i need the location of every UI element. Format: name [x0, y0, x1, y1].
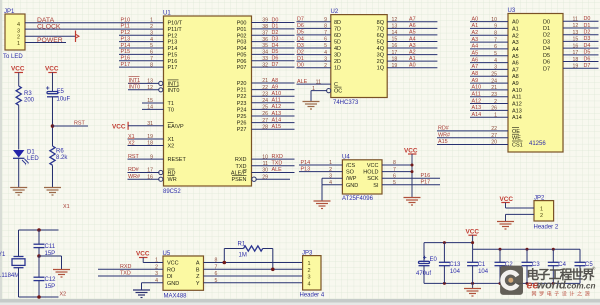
power VCC (above E5)	[45, 66, 59, 92]
svg-text:200: 200	[24, 98, 35, 104]
svg-text:P15: P15	[121, 49, 131, 55]
svg-text:RXD: RXD	[272, 154, 283, 160]
svg-text:16: 16	[147, 174, 153, 180]
U2 pins 8Q-1Q with A7-A0 nets	[377, 17, 438, 72]
svg-text:ALE: ALE	[297, 79, 308, 85]
junction (RST node)	[51, 124, 55, 128]
svg-text:D2: D2	[297, 49, 304, 55]
svg-text:9: 9	[494, 24, 497, 30]
svg-text:18: 18	[147, 141, 153, 147]
latch U2 74HC373	[331, 9, 388, 106]
svg-text:VCC: VCC	[404, 147, 418, 154]
svg-text:D4: D4	[543, 46, 550, 52]
svg-text:1D: 1D	[334, 66, 341, 72]
svg-text:13: 13	[147, 79, 153, 85]
svg-text:P12: P12	[168, 33, 178, 39]
U1 pins P00-P07 with D0-D7 nets	[237, 17, 295, 71]
svg-text:P05: P05	[237, 52, 247, 58]
capacitor E5 10uF (electrolytic)	[46, 86, 71, 102]
svg-text:37: 37	[262, 31, 268, 37]
svg-text:A11: A11	[472, 92, 481, 98]
svg-text:A6: A6	[472, 57, 479, 63]
U4 right pins VCC HOLD SCK SI	[363, 160, 440, 189]
power VCC (U5 pin1)	[136, 251, 163, 263]
svg-text:P11: P11	[121, 24, 130, 30]
svg-text:17: 17	[573, 50, 579, 56]
U3 pins A0-A14	[470, 16, 522, 121]
svg-text:A2: A2	[409, 49, 416, 55]
svg-text:25: 25	[491, 71, 497, 77]
resistor R3	[16, 86, 35, 105]
U1 pins P10-P17 (left, pin names and numbers)	[150, 18, 183, 71]
svg-text:RST: RST	[128, 154, 139, 160]
svg-text:D5: D5	[543, 53, 550, 59]
svg-text:A1: A1	[512, 26, 519, 32]
svg-text:2: 2	[17, 35, 20, 41]
capacitor C1	[467, 249, 489, 283]
svg-text:19: 19	[573, 63, 579, 69]
svg-text:5Q: 5Q	[377, 40, 385, 46]
svg-text:26: 26	[262, 111, 268, 117]
svg-text:17: 17	[147, 168, 153, 174]
svg-text:A6: A6	[409, 23, 416, 29]
svg-text:A14: A14	[472, 112, 482, 118]
svg-text:C12: C12	[45, 277, 57, 283]
U2 pin C (ALE)	[297, 79, 339, 88]
svg-text:74HC373: 74HC373	[333, 100, 359, 106]
connector JP1	[3, 9, 25, 60]
svg-text:104: 104	[478, 269, 489, 275]
U4 left pins /CS SO /WP GND	[299, 160, 358, 201]
svg-text:22.1184M: 22.1184M	[0, 273, 19, 279]
svg-text:RXD: RXD	[235, 157, 247, 163]
svg-text:A7: A7	[472, 64, 479, 70]
U1 pins RD/WR with bubbles	[128, 167, 177, 183]
svg-text:13: 13	[392, 24, 398, 30]
svg-text:23: 23	[491, 92, 497, 98]
resistor R1 1M (bridge A-B)	[224, 242, 272, 270]
svg-text:8D: 8D	[334, 20, 341, 26]
power VCC (cap bank)	[466, 229, 480, 243]
U1 pin EA/VP	[147, 121, 184, 130]
svg-text:16: 16	[392, 43, 398, 49]
svg-text:8: 8	[324, 24, 327, 30]
svg-text:3: 3	[308, 275, 311, 281]
svg-text:7D: 7D	[334, 26, 341, 32]
svg-text:D7: D7	[297, 17, 304, 23]
svg-text:2: 2	[324, 63, 327, 69]
svg-text:D3: D3	[297, 43, 304, 49]
svg-text:DI: DI	[167, 274, 173, 280]
svg-text:A11: A11	[272, 98, 281, 104]
svg-text:A12: A12	[272, 104, 282, 110]
svg-text:TXD: TXD	[120, 271, 131, 277]
svg-text:30: 30	[262, 168, 268, 174]
capacitor C13	[439, 243, 461, 284]
svg-text:A9: A9	[472, 78, 479, 84]
svg-text:VCC: VCC	[500, 196, 514, 203]
svg-text:MAX488: MAX488	[164, 294, 188, 300]
svg-text:A0: A0	[409, 63, 416, 69]
junction (X2 rail)	[37, 295, 41, 299]
U1 pin RESET	[128, 154, 187, 163]
U1 pins T1/T0	[142, 98, 174, 113]
node labels X1/X2 at U1	[128, 134, 135, 147]
svg-text:A10: A10	[472, 85, 482, 91]
svg-text:22: 22	[491, 126, 497, 132]
svg-text:/WP: /WP	[346, 176, 357, 182]
svg-text:6D: 6D	[334, 33, 341, 39]
ground (under R6)	[44, 188, 61, 196]
svg-text:AT25F4096: AT25F4096	[342, 196, 374, 202]
svg-text:6: 6	[494, 44, 497, 50]
junction dots cap bank	[443, 241, 555, 285]
svg-text:A2: A2	[512, 33, 519, 39]
svg-text:P10/T: P10/T	[168, 21, 183, 27]
capacitor E0 470uf (electrolytic)	[416, 256, 438, 284]
svg-text:89C52: 89C52	[163, 189, 181, 195]
junction U4 pin7	[411, 170, 414, 173]
svg-text:35: 35	[262, 43, 268, 49]
svg-text:14: 14	[392, 30, 398, 36]
svg-text:P02: P02	[237, 33, 247, 39]
svg-text:3D: 3D	[334, 53, 341, 59]
svg-text:C11: C11	[45, 244, 56, 250]
svg-text:A: A	[196, 261, 200, 267]
capacitor C2	[495, 249, 514, 283]
U1 pins P20-P27 with A8-A15 nets	[237, 78, 295, 133]
svg-text:CLOCK: CLOCK	[37, 24, 61, 31]
svg-text:D0: D0	[297, 63, 304, 69]
svg-text:A7: A7	[409, 17, 416, 23]
svg-text:VCC: VCC	[167, 261, 179, 267]
svg-text:A9: A9	[512, 81, 519, 87]
svg-text:8Q: 8Q	[377, 20, 385, 26]
U1 pins INT1/INT0 with bubbles	[128, 79, 179, 94]
svg-text:9: 9	[324, 17, 327, 23]
svg-text:D1: D1	[297, 56, 304, 62]
svg-text:A0: A0	[512, 20, 519, 26]
svg-text:29: 29	[262, 174, 268, 180]
svg-text:1: 1	[17, 41, 20, 47]
svg-text:A14: A14	[272, 117, 282, 123]
svg-text:2Q: 2Q	[377, 59, 385, 65]
svg-text:Y: Y	[196, 281, 200, 287]
U1 pins X1/X2	[128, 134, 175, 149]
svg-text:C13: C13	[449, 262, 461, 268]
svg-text:A12: A12	[512, 102, 522, 108]
svg-text:D4: D4	[297, 36, 304, 42]
svg-text:4D: 4D	[334, 46, 341, 52]
crystal Y1 22.1184M	[0, 252, 25, 279]
svg-text:4: 4	[324, 50, 327, 56]
svg-text:27: 27	[491, 133, 497, 139]
resistor R6	[50, 146, 68, 165]
svg-text:/CS: /CS	[346, 163, 356, 169]
ground (U4 GND//WP)	[314, 201, 331, 209]
svg-text:P17: P17	[168, 65, 178, 71]
svg-text:RESET: RESET	[168, 157, 187, 163]
wire JP1.1	[25, 42, 66, 44]
wire crystal top rail	[19, 230, 59, 257]
svg-text:17: 17	[392, 50, 398, 56]
U3 pins D0-D7 (right)	[543, 16, 599, 72]
svg-text:A0: A0	[472, 16, 479, 22]
wire RST stub	[53, 125, 89, 127]
svg-text:GND: GND	[346, 183, 358, 189]
wire DATA (JP1.4 to U1 P10)	[25, 22, 164, 24]
svg-text:网罗电子设计之源: 网罗电子设计之源	[532, 290, 593, 297]
memory U3 41256	[508, 8, 564, 152]
svg-text:OC: OC	[334, 89, 342, 95]
svg-text:P20: P20	[237, 81, 247, 87]
svg-text:A13: A13	[472, 105, 482, 111]
power port bar (POWER net)	[76, 31, 80, 43]
svg-text:P25: P25	[237, 114, 247, 120]
svg-text:P12: P12	[121, 30, 131, 36]
svg-text:3: 3	[494, 65, 497, 71]
svg-text:28: 28	[262, 124, 268, 130]
wire E5 to RST junction	[52, 97, 54, 146]
svg-text:P15: P15	[168, 52, 178, 58]
svg-text:1: 1	[150, 18, 153, 24]
svg-text:P10: P10	[121, 17, 131, 23]
svg-text:WR: WR	[168, 177, 177, 183]
svg-text:D6: D6	[584, 56, 591, 62]
wires P12..P17 stubs	[119, 35, 164, 67]
junction R1/B	[271, 268, 275, 272]
wire crystal bottom to rail	[19, 268, 59, 297]
svg-text:RST: RST	[74, 121, 85, 127]
svg-text:33: 33	[262, 56, 268, 62]
capacitor C11 15P	[34, 230, 56, 257]
svg-text:X2: X2	[128, 140, 135, 146]
svg-text:D7: D7	[543, 66, 550, 72]
capacitor C12 15P	[34, 256, 57, 297]
svg-text:8: 8	[494, 30, 497, 36]
svg-text:12: 12	[573, 23, 579, 29]
svg-text:A12: A12	[472, 98, 482, 104]
svg-text:20: 20	[491, 140, 497, 146]
svg-text:19: 19	[392, 63, 398, 69]
svg-text:Header 2: Header 2	[534, 225, 559, 231]
wire EA/VP	[128, 125, 163, 127]
svg-text:C1: C1	[478, 262, 486, 268]
svg-text:22: 22	[262, 85, 268, 91]
svg-text:11: 11	[263, 161, 268, 167]
svg-text:P14: P14	[301, 160, 311, 166]
svg-text:POWER: POWER	[37, 37, 63, 44]
junction R1/A	[223, 261, 227, 265]
svg-text:X1: X1	[63, 204, 70, 210]
svg-text:2D: 2D	[334, 59, 341, 65]
svg-text:4: 4	[308, 281, 311, 287]
svg-text:RO: RO	[167, 267, 176, 273]
svg-text:P13: P13	[301, 166, 311, 172]
wire RXD to U5.RO	[98, 268, 163, 270]
svg-text:To LED: To LED	[3, 54, 23, 60]
svg-text:5: 5	[324, 43, 327, 49]
svg-text:2: 2	[150, 24, 153, 30]
svg-text:41256: 41256	[529, 141, 546, 147]
svg-text:9: 9	[150, 154, 153, 160]
svg-text:A9: A9	[272, 84, 279, 90]
svg-text:15: 15	[147, 98, 153, 104]
wire CLOCK (JP1.3 to U1 P11)	[25, 28, 164, 30]
wire JP1.2 to power bar	[25, 35, 76, 37]
svg-text:D4: D4	[584, 43, 591, 49]
svg-text:SO: SO	[346, 170, 355, 176]
svg-text:A4: A4	[512, 47, 519, 53]
svg-text:5: 5	[494, 51, 497, 57]
svg-text:A1: A1	[472, 23, 479, 29]
svg-text:A8: A8	[472, 71, 479, 77]
svg-text:B: B	[196, 267, 200, 273]
svg-text:10uF: 10uF	[57, 97, 71, 103]
svg-text:2: 2	[494, 99, 497, 105]
svg-text:18: 18	[392, 56, 398, 62]
svg-text:D1: D1	[584, 23, 591, 29]
svg-text:P14: P14	[121, 43, 131, 49]
svg-text:4: 4	[494, 58, 497, 64]
svg-text:VCC: VCC	[466, 229, 480, 236]
ground (U4 right)	[404, 198, 421, 206]
svg-text:2: 2	[540, 213, 543, 219]
svg-text:12: 12	[392, 17, 398, 23]
svg-text:15: 15	[573, 37, 579, 43]
wire bottom bus	[424, 282, 580, 284]
wire U5.B to JP3.2	[204, 268, 303, 270]
svg-text:A6: A6	[512, 61, 519, 67]
watermark eeworld logo	[500, 266, 523, 295]
capacitor C4	[548, 249, 567, 283]
svg-text:LED: LED	[27, 156, 39, 162]
svg-text:D1: D1	[543, 26, 550, 32]
svg-text:A2: A2	[472, 30, 479, 36]
svg-text:P03: P03	[237, 40, 247, 46]
svg-text:VCC: VCC	[11, 66, 25, 73]
svg-text:A1: A1	[409, 56, 416, 62]
svg-text:4Q: 4Q	[377, 46, 385, 52]
wire U5.GND to ground	[142, 283, 164, 290]
node labels P10..P17	[121, 17, 131, 68]
wire U5.A to JP3.1	[204, 262, 303, 264]
svg-text:VCC: VCC	[367, 163, 379, 169]
svg-text:7: 7	[324, 30, 327, 36]
svg-text:D2: D2	[272, 30, 279, 36]
svg-text:36: 36	[262, 37, 268, 43]
U5 pins A B Z Y	[196, 258, 218, 287]
svg-text:RD#: RD#	[128, 167, 139, 173]
svg-text:A4: A4	[472, 44, 479, 50]
ground (crystal)	[53, 270, 70, 278]
junction (C11/C12/gnd)	[37, 254, 41, 258]
svg-text:10: 10	[262, 154, 268, 160]
svg-text:EA\VP: EA\VP	[168, 124, 185, 130]
svg-text:39: 39	[262, 18, 268, 24]
svg-text:GND: GND	[167, 281, 179, 287]
svg-text:P23: P23	[237, 101, 247, 107]
svg-text:WR#: WR#	[438, 132, 450, 138]
svg-text:P27: P27	[237, 127, 247, 133]
U3 pins OE/WE/CS1 with RD#/WR#/A15 nets	[437, 126, 523, 149]
svg-text:P16: P16	[168, 59, 178, 65]
watermark url	[527, 280, 596, 292]
svg-text:CS1: CS1	[512, 143, 523, 149]
svg-text:1: 1	[155, 258, 158, 264]
svg-text:P04: P04	[237, 46, 247, 52]
wire D1 to ground	[18, 158, 20, 187]
svg-text:15: 15	[392, 37, 398, 43]
svg-text:P13: P13	[168, 40, 178, 46]
svg-text:6: 6	[324, 37, 327, 43]
wire R3 to D1	[18, 105, 20, 149]
svg-text:24: 24	[262, 98, 268, 104]
wire VCC to JP2.1	[506, 207, 535, 209]
svg-text:D3: D3	[543, 39, 550, 45]
svg-text:D6: D6	[543, 60, 550, 66]
svg-text:D0: D0	[584, 16, 591, 22]
svg-text:25: 25	[262, 105, 268, 111]
ground (U5)	[133, 290, 150, 298]
svg-text:D1: D1	[272, 24, 279, 30]
svg-text:32: 32	[262, 62, 268, 68]
U2 pin OC with bubble to ground	[311, 86, 342, 102]
svg-text:P00: P00	[237, 21, 247, 27]
svg-text:WR#: WR#	[128, 174, 140, 180]
svg-text:P22: P22	[237, 94, 247, 100]
svg-text:INT0: INT0	[129, 85, 141, 91]
wire top bus left (E0-C13-C1)	[424, 243, 473, 263]
svg-text:Y1: Y1	[0, 252, 6, 258]
svg-text:7: 7	[494, 37, 497, 43]
diode D1 LED	[13, 150, 39, 166]
junction (C11 top)	[37, 228, 41, 232]
svg-text:D3: D3	[272, 36, 279, 42]
U1 pins RXD/TXD/ALE/PSEN	[231, 154, 295, 183]
svg-text:1: 1	[540, 206, 543, 212]
svg-text:X1: X1	[168, 137, 175, 143]
svg-text:13: 13	[573, 30, 579, 36]
svg-text:3: 3	[17, 28, 20, 34]
svg-text:D0: D0	[272, 17, 279, 23]
svg-text:D7: D7	[272, 62, 279, 68]
svg-text:VCC: VCC	[45, 66, 59, 73]
svg-text:T1: T1	[168, 101, 174, 107]
svg-text:5D: 5D	[334, 40, 341, 46]
svg-text:SI: SI	[373, 183, 379, 189]
svg-text:A5: A5	[472, 51, 479, 57]
svg-text:P07: P07	[237, 65, 247, 71]
U5 pins VCC RO DI GND	[155, 258, 179, 287]
node labels INT1/INT0	[129, 77, 141, 91]
svg-text:18: 18	[573, 57, 579, 63]
svg-text:8.2k: 8.2k	[56, 155, 68, 161]
power VCC (U4)	[404, 147, 418, 197]
svg-text:31: 31	[147, 121, 153, 127]
svg-text:D2: D2	[584, 30, 591, 36]
svg-text:4: 4	[17, 22, 20, 28]
svg-text:2: 2	[308, 268, 311, 274]
svg-text:6Q: 6Q	[377, 33, 385, 39]
svg-text:16: 16	[573, 43, 579, 49]
capacitor C3	[522, 249, 541, 283]
wire to crystal ground	[39, 256, 62, 270]
svg-text:D5: D5	[272, 49, 279, 55]
svg-text:11: 11	[573, 17, 578, 23]
svg-text:3Q: 3Q	[377, 53, 385, 59]
svg-text:P17: P17	[121, 62, 131, 68]
